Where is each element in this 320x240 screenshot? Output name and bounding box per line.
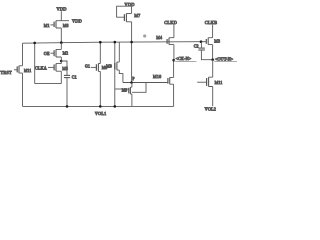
- svg-text:VOL2: VOL2: [205, 107, 217, 112]
- wire: OE source to mid node: [60, 57, 62, 61]
- wire: M10 drain up to CK junction: [173, 60, 175, 77]
- wire: M7 main vertical VDD to P node: [131, 6, 133, 83]
- wire: M3 source down to OUT junction: [212, 45, 214, 60]
- svg-text:M9: M9: [122, 89, 128, 93]
- transistor M5 (CLKA): [48, 64, 61, 72]
- node: rail crossing M7: [130, 41, 133, 44]
- wire: OUT-N stub under label: [213, 60, 237, 61]
- wire: M9 source down to ground: [131, 94, 133, 106]
- node: rail junction x34.7: [33, 42, 36, 45]
- wire: P node wire: [123, 82, 168, 84]
- wire: M6 drain to rail: [99, 42, 101, 63]
- wire: left frame upper (rail to TRST drain): [22, 43, 24, 66]
- transistor M1: [50, 21, 61, 28]
- wire: VDD to M1 source: [60, 11, 62, 21]
- svg-text:M11: M11: [215, 80, 223, 85]
- node: rail junction M6: [99, 41, 102, 44]
- wire: P hook down right of M9: [132, 83, 146, 93]
- wire: M9 drain up to P: [131, 83, 133, 88]
- capacitor C1: [61, 61, 70, 106]
- svg-text:C2: C2: [194, 43, 199, 48]
- wire: M8 source bend down to P wire: [119, 70, 123, 82]
- svg-text:M7: M7: [134, 13, 140, 18]
- wire: M5 source down to y83.6 wire: [60, 71, 62, 83]
- node: rail junction M8 line: [114, 41, 117, 44]
- svg-text:M10: M10: [153, 74, 161, 79]
- wire: M11 source down: [212, 87, 214, 107]
- svg-text:CLKA: CLKA: [35, 65, 47, 70]
- wire: bottom ground rail: [23, 105, 174, 107]
- wire: rail tap x34.7 down to y83.6: [34, 43, 36, 84]
- svg-text:<OUT-N>: <OUT-N>: [215, 56, 234, 61]
- wire: M8 gate line rail to ground: [114, 42, 116, 106]
- wire: M11 drain up to OUT junction: [212, 60, 214, 77]
- node: CK junction: [172, 59, 175, 62]
- svg-text:M11: M11: [24, 69, 31, 73]
- wire: CLKD down to M4: [173, 25, 175, 38]
- wire: M6 source to ground: [99, 71, 101, 106]
- svg-text:VDD: VDD: [72, 18, 82, 23]
- transistor M9: [115, 87, 132, 94]
- wire: main mid rail: [23, 42, 202, 44]
- node: ground junction M8 line: [114, 105, 117, 108]
- wire: M10 source down to ground corner: [173, 84, 175, 106]
- svg-text:TRST: TRST: [1, 70, 12, 75]
- node: rail junction x61.3: [60, 41, 63, 44]
- svg-text:<CK-N>: <CK-N>: [176, 56, 192, 61]
- wire: horizontal y83.6: [35, 83, 62, 85]
- wire: M4 source down to CK junction: [173, 45, 175, 61]
- transistor M11 (TRST): [14, 66, 23, 74]
- node: rail end junction: [200, 40, 203, 43]
- node: OUT junction: [211, 58, 214, 61]
- svg-text:VDD: VDD: [57, 7, 67, 12]
- node P: [130, 81, 133, 84]
- transistor M10: [168, 77, 174, 84]
- node: gray marker: [143, 34, 146, 37]
- wire: CK-N stub under label: [174, 60, 197, 61]
- wire: left frame lower (TRST source to ground rail): [22, 73, 24, 106]
- node: mid node: [60, 60, 63, 63]
- transistor M6: [91, 64, 101, 72]
- svg-text:VOL1: VOL1: [95, 111, 107, 116]
- svg-text:CLKD: CLKD: [164, 20, 177, 25]
- transistor M11 right: [197, 77, 213, 86]
- svg-text:C1: C1: [72, 74, 77, 79]
- transistor M4: [167, 38, 174, 45]
- transistor M3: [201, 38, 213, 45]
- wire: M5 drain up to mid node: [60, 61, 62, 64]
- svg-text:M8: M8: [106, 64, 112, 68]
- svg-text:M3: M3: [214, 39, 220, 44]
- svg-text:M1: M1: [44, 23, 50, 28]
- transistor M2 (OE): [50, 49, 61, 57]
- wire: OE drain up to rail: [60, 43, 62, 50]
- svg-text:OE: OE: [44, 51, 50, 56]
- svg-text:M6: M6: [63, 24, 69, 28]
- svg-text:P: P: [132, 76, 135, 81]
- svg-text:CLKB: CLKB: [205, 20, 218, 25]
- wire: M8 drain up to rail: [118, 42, 120, 62]
- node: ground junction M6: [99, 105, 102, 108]
- svg-text:M4: M4: [156, 35, 162, 40]
- transistor M7 diode connected: [117, 6, 132, 22]
- svg-text:M2: M2: [63, 52, 69, 56]
- transistor M8: [115, 62, 120, 70]
- capacitor C2: [198, 42, 212, 60]
- node: C1 ground junction: [66, 105, 69, 108]
- wire: VDD body stub: [61, 20, 69, 22]
- wire: M1 drain to rail: [60, 28, 62, 43]
- wire: CLKB down to M3: [212, 25, 214, 38]
- svg-text:G1: G1: [85, 65, 90, 69]
